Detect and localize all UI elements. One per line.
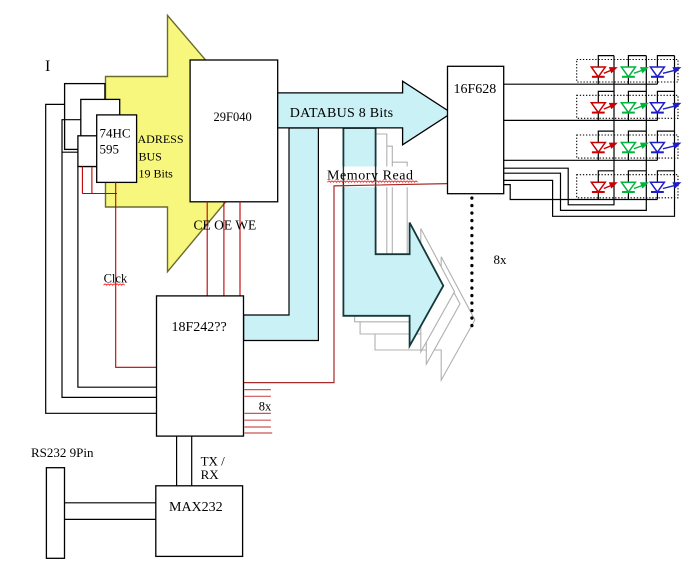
svg-text:BUS: BUS xyxy=(139,149,162,163)
svg-text:19 Bits: 19 Bits xyxy=(139,166,174,180)
svg-text:18F242??: 18F242?? xyxy=(172,320,227,335)
svg-text:MAX232: MAX232 xyxy=(169,500,223,515)
svg-text:8x: 8x xyxy=(259,399,272,413)
svg-text:DATABUS 8 Bits: DATABUS 8 Bits xyxy=(290,106,394,121)
svg-text:I: I xyxy=(45,58,50,75)
svg-text:ADRESS: ADRESS xyxy=(138,132,184,146)
svg-text:RS232 9Pin: RS232 9Pin xyxy=(31,445,94,460)
svg-text:CE OE WE: CE OE WE xyxy=(194,217,257,232)
svg-text:595: 595 xyxy=(100,142,120,157)
svg-text:29F040: 29F040 xyxy=(214,110,252,124)
svg-text:RX: RX xyxy=(201,467,220,482)
svg-text:8x: 8x xyxy=(494,252,508,267)
svg-text:Clck: Clck xyxy=(104,272,128,286)
svg-text:16F628: 16F628 xyxy=(454,82,497,97)
svg-text:74HC: 74HC xyxy=(100,126,131,141)
